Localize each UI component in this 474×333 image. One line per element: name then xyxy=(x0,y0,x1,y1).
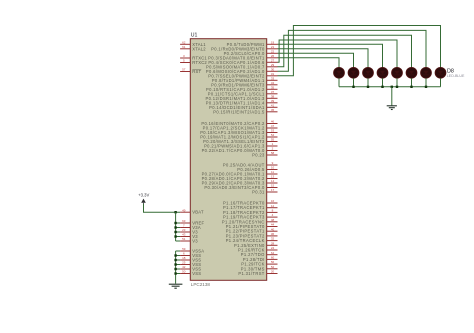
svg-text:64: 64 xyxy=(271,251,275,255)
wire P0.2 to LED D2 xyxy=(278,53,354,67)
pin V3 (51) xyxy=(180,237,198,243)
pin P0.20/MAT1.3/SSEL1/EINT3 (55) xyxy=(203,138,277,144)
power symbol +3.3V xyxy=(138,193,149,205)
svg-text:53: 53 xyxy=(271,129,275,133)
wire P0.7 to LED D8 xyxy=(278,26,441,76)
junction on cathode bus x=382 xyxy=(381,86,383,88)
pin P0.5/MISO0/MAT0.1/AD0.7 (29) xyxy=(206,63,278,69)
pin P1.30/TMS (52) xyxy=(241,265,278,271)
svg-text:58: 58 xyxy=(271,151,275,155)
pin P0.26/AD0.5 (10) xyxy=(237,166,277,172)
svg-text:60: 60 xyxy=(271,256,275,260)
junction at LED ground tap xyxy=(391,86,393,88)
pin P0.27/AD0.0/CAP0.1/MAT0.1 (11) xyxy=(202,170,278,176)
pin P0.28/AD0.1/CAP0.2/MAT0.2 (13) xyxy=(202,175,278,181)
pin P0.18/CAP1.3/MISO1/MAT1.3 (53) xyxy=(200,129,277,135)
pin P0.30/AD0.3/EINT3/CAP0.0 (15) xyxy=(204,184,277,190)
pin P1.19/TRACEPKT3 (4) xyxy=(223,213,277,219)
svg-text:LPC2138: LPC2138 xyxy=(191,282,211,287)
wire D8 cathode lead xyxy=(440,78,442,87)
pin VSSA (59) xyxy=(180,247,204,253)
pin P1.31/TRST (20) xyxy=(238,270,277,276)
svg-text:45: 45 xyxy=(271,108,275,112)
wire V3 bus xyxy=(175,212,177,241)
wire VSS bus to pin y=269 xyxy=(176,268,181,270)
svg-text:LED-BLUE: LED-BLUE xyxy=(447,74,465,78)
svg-text:27: 27 xyxy=(271,58,275,62)
wire VSS bus to pin y=260 xyxy=(176,259,181,261)
svg-text:35: 35 xyxy=(271,85,275,89)
junction V3 bus y=228 xyxy=(174,226,176,228)
pin RTXC1 (3) xyxy=(180,54,207,60)
pin VBAT (49) xyxy=(180,208,204,214)
svg-text:32: 32 xyxy=(271,237,275,241)
wire V3 bus to pin y=228 xyxy=(176,227,181,229)
junction on cathode bus x=426 xyxy=(425,86,427,88)
pin P0.16/EINT0/MAT0.2/CAP0.2 (46) xyxy=(201,120,277,126)
svg-text:4: 4 xyxy=(272,213,274,217)
junction V3 bus y=223 xyxy=(174,222,176,224)
svg-text:RTXC2: RTXC2 xyxy=(192,60,207,65)
wire D1 cathode lead xyxy=(338,78,340,87)
svg-text:51: 51 xyxy=(182,237,186,241)
pin XTAL2 (61) xyxy=(180,45,206,51)
svg-text:31: 31 xyxy=(271,72,275,76)
pin P0.0/TxD0/PWM1 (19) xyxy=(227,40,278,46)
pin VSS (25) xyxy=(180,261,201,267)
svg-text:44: 44 xyxy=(271,223,275,227)
svg-text:61: 61 xyxy=(182,45,186,49)
junction on cathode bus x=397 xyxy=(396,86,398,88)
pin P0.14/DCD1/EINT1/SDA1 (41) xyxy=(209,103,277,109)
svg-text:25: 25 xyxy=(182,261,186,265)
LED D3 xyxy=(363,67,374,78)
svg-text:56: 56 xyxy=(271,260,275,264)
wire P0.1 to LED D3 xyxy=(278,49,369,68)
svg-text:10: 10 xyxy=(271,166,275,170)
wire V3 bus to pin y=241 xyxy=(176,240,181,242)
svg-text:34: 34 xyxy=(271,81,275,85)
svg-text:20: 20 xyxy=(271,270,275,274)
pin P0.17/CAP1.2/SCK1/MAT1.2 (47) xyxy=(203,124,278,130)
pin VSS (50) xyxy=(180,270,201,276)
svg-text:26: 26 xyxy=(271,54,275,58)
wire V3 bus to pin y=236 xyxy=(176,236,181,238)
ground (LED bus) xyxy=(387,106,397,110)
svg-text:40: 40 xyxy=(271,227,275,231)
pin V3 (43) xyxy=(180,233,198,239)
junction on cathode bus x=412 xyxy=(410,86,412,88)
wire LED cathode bus xyxy=(339,86,441,88)
junction VSS bus y=269 xyxy=(174,268,176,270)
wire VSS bus xyxy=(175,251,177,284)
svg-text:49: 49 xyxy=(182,208,186,212)
pin P0.10/RTS1/CAP1.0/AD1.2 (35) xyxy=(206,85,278,91)
wire ground stem (LED bus) xyxy=(391,87,393,106)
svg-text:33: 33 xyxy=(271,76,275,80)
junction on cathode bus x=368 xyxy=(367,86,369,88)
pin P1.16/TRACEPKT0 (16) xyxy=(223,199,277,205)
LED D8 xyxy=(435,67,446,78)
pin P0.9/RxD1/PWM6/EINT3 (34) xyxy=(211,81,277,87)
wire P0.5 to LED D6 xyxy=(278,35,412,67)
pin P1.25/EXTIN0 (28) xyxy=(234,241,278,247)
pin P0.23 (58) xyxy=(252,151,277,157)
pin VSS (18) xyxy=(180,256,201,262)
svg-text:14: 14 xyxy=(271,179,275,183)
pin P0.2/SCL0/CAP0.0 (22) xyxy=(224,49,278,55)
pin P1.29/TCK (56) xyxy=(241,260,277,266)
pin RTXC2 (5) xyxy=(180,59,207,65)
pin P1.24/TRACECLK (32) xyxy=(226,237,278,243)
svg-text:29: 29 xyxy=(271,63,275,67)
junction VSS bus y=274 xyxy=(174,272,176,274)
svg-text:39: 39 xyxy=(271,99,275,103)
junction VSS bus y=264 xyxy=(174,263,176,265)
wire D2 cathode lead xyxy=(353,78,355,87)
pin P0.15/RI1/EINT2/AD1.5 (45) xyxy=(213,108,277,114)
pin VSS (42) xyxy=(180,265,201,271)
pin P1.27/TDO (64) xyxy=(241,251,278,257)
pin P0.19/MAT1.2/MOSI1/CAP1.2 (54) xyxy=(200,133,277,139)
wire VSS bus to pin y=274 xyxy=(176,273,181,275)
wire P0.0 to LED D4 xyxy=(278,44,383,67)
svg-text:23: 23 xyxy=(182,228,186,232)
LED D5 xyxy=(392,67,403,78)
svg-text:P0.15/RI1/EINT2/AD1.5: P0.15/RI1/EINT2/AD1.5 xyxy=(213,109,265,114)
svg-text:21: 21 xyxy=(271,45,275,49)
pin P0.6/MOSI0/CAP0.2/AD1.0 (30) xyxy=(206,67,278,73)
wire D5 cathode lead xyxy=(396,78,398,87)
pin P0.21/PWM5/AD1.6/CAP1.3 (1) xyxy=(204,142,277,148)
microcontroller U1 LPC2138 body xyxy=(190,39,266,281)
svg-text:46: 46 xyxy=(271,120,275,124)
pin RST (57) xyxy=(180,68,201,74)
svg-text:24: 24 xyxy=(271,246,275,250)
LED D1 xyxy=(334,67,345,78)
LED D7 xyxy=(421,67,432,78)
junction VSS bus y=260 xyxy=(174,259,176,261)
junction V3 bus y=232 xyxy=(174,231,176,233)
svg-text:+3.3V: +3.3V xyxy=(138,193,149,198)
pin P0.25/AD0.4/AOUT (9) xyxy=(223,161,278,167)
pin P0.3/SDA0/MAT0.0/EINT1 (26) xyxy=(208,54,277,60)
pin P0.13/DTR1/MAT1.1/AD1.4 (39) xyxy=(206,99,278,105)
pin P1.21/PIPESTAT0 (44) xyxy=(226,223,278,229)
pin P1.23/PIPESTAT2 (36) xyxy=(226,232,278,238)
wire D7 cathode lead xyxy=(425,78,427,87)
svg-text:57: 57 xyxy=(182,68,186,72)
svg-text:VSS: VSS xyxy=(192,271,201,276)
wire P0.6 to LED D7 xyxy=(278,30,427,71)
pin XTAL1 (62) xyxy=(180,40,206,46)
svg-text:62: 62 xyxy=(182,40,186,44)
svg-text:38: 38 xyxy=(271,94,275,98)
LED D2 xyxy=(348,67,359,78)
wire D6 cathode lead xyxy=(411,78,413,87)
svg-text:17: 17 xyxy=(271,188,275,192)
wire V3 bus to pin y=232 xyxy=(176,231,181,233)
svg-text:63: 63 xyxy=(182,219,186,223)
pin VREF (63) xyxy=(180,219,204,225)
svg-text:59: 59 xyxy=(182,247,186,251)
ground (VSS) xyxy=(169,284,183,288)
svg-text:P0.31: P0.31 xyxy=(252,190,265,195)
svg-text:41: 41 xyxy=(271,103,275,107)
svg-text:22: 22 xyxy=(271,49,275,53)
pin P1.22/PIPESTAT1 (40) xyxy=(226,227,278,233)
pin P1.26/RTCK (24) xyxy=(238,246,278,252)
svg-text:P0.23: P0.23 xyxy=(252,153,265,158)
pin P0.29/AD0.2/CAP0.3/MAT0.3 (14) xyxy=(202,179,278,185)
junction VSS bus y=256 xyxy=(174,254,176,256)
wire V3 bus to pin y=223 xyxy=(176,222,181,224)
junction V3 bus y=236 xyxy=(174,235,176,237)
pin P0.22/AD1.7/CAP0.0/MAT0.0 (2) xyxy=(202,147,278,153)
wire D3 cathode lead xyxy=(367,78,369,87)
svg-text:43: 43 xyxy=(182,233,186,237)
pin P1.20/TRACESYNC (48) xyxy=(222,218,278,224)
wire VSS bus to pin y=251 xyxy=(176,250,181,252)
svg-text:16: 16 xyxy=(271,199,275,203)
LED D6 xyxy=(406,67,417,78)
pin P1.18/TRACEPKT2 (8) xyxy=(223,209,277,215)
svg-text:15: 15 xyxy=(271,184,275,188)
pin P0.7/SSEL0/PWM2/EINT2 (31) xyxy=(208,72,277,78)
junction on cathode bus x=354 xyxy=(352,86,354,88)
svg-text:11: 11 xyxy=(271,170,274,174)
wire VSS bus to pin y=256 xyxy=(176,255,181,257)
pin P0.31 (17) xyxy=(252,188,277,194)
junction at V3 bus tap xyxy=(174,211,176,213)
wire D4 cathode lead xyxy=(382,78,384,87)
wire +3.3V to VBAT xyxy=(144,204,181,212)
svg-text:VBAT: VBAT xyxy=(192,210,204,215)
svg-text:50: 50 xyxy=(182,270,186,274)
LED D4 xyxy=(377,67,388,78)
pin P1.17/TRACEPKT1 (12) xyxy=(223,204,277,210)
svg-text:52: 52 xyxy=(271,265,275,269)
svg-text:30: 30 xyxy=(271,67,275,71)
svg-text:48: 48 xyxy=(271,218,275,222)
pin P0.1/RxD0/PWM3/EINT0 (21) xyxy=(211,45,277,51)
pin P1.28/TDI (60) xyxy=(243,256,278,262)
pin V3A (7) xyxy=(180,224,201,230)
wire P0.3 to LED D1 xyxy=(278,58,340,68)
svg-text:37: 37 xyxy=(271,90,275,94)
svg-text:XTAL2: XTAL2 xyxy=(192,46,206,51)
svg-text:55: 55 xyxy=(271,138,275,142)
svg-text:RST: RST xyxy=(192,69,201,74)
svg-text:42: 42 xyxy=(182,265,186,269)
svg-text:U1: U1 xyxy=(191,33,198,39)
pin P0.12/DSR1/MAT1.0/AD1.3 (38) xyxy=(206,94,278,100)
pin VSS (6) xyxy=(180,252,201,258)
svg-text:36: 36 xyxy=(271,232,275,236)
svg-text:V3: V3 xyxy=(192,239,198,244)
svg-text:28: 28 xyxy=(271,241,275,245)
svg-text:47: 47 xyxy=(271,124,275,128)
wire P0.4 to LED D5 xyxy=(278,40,398,67)
wire VSS bus to pin y=264 xyxy=(176,264,181,266)
pin P0.8/TxD1/PWM4/AD1.1 (33) xyxy=(212,76,278,82)
svg-text:18: 18 xyxy=(182,256,186,260)
svg-text:54: 54 xyxy=(271,133,275,137)
svg-text:19: 19 xyxy=(271,40,275,44)
pin P0.4/SCK0/CAP0.1/AD0.6 (27) xyxy=(208,58,277,64)
svg-text:13: 13 xyxy=(271,175,275,179)
svg-text:P1.31/TRST: P1.31/TRST xyxy=(238,271,264,276)
pin P0.11/CTS1/CAP1.1/SCL1 (37) xyxy=(208,90,278,96)
pin V3 (23) xyxy=(180,228,198,234)
svg-text:12: 12 xyxy=(271,204,275,208)
